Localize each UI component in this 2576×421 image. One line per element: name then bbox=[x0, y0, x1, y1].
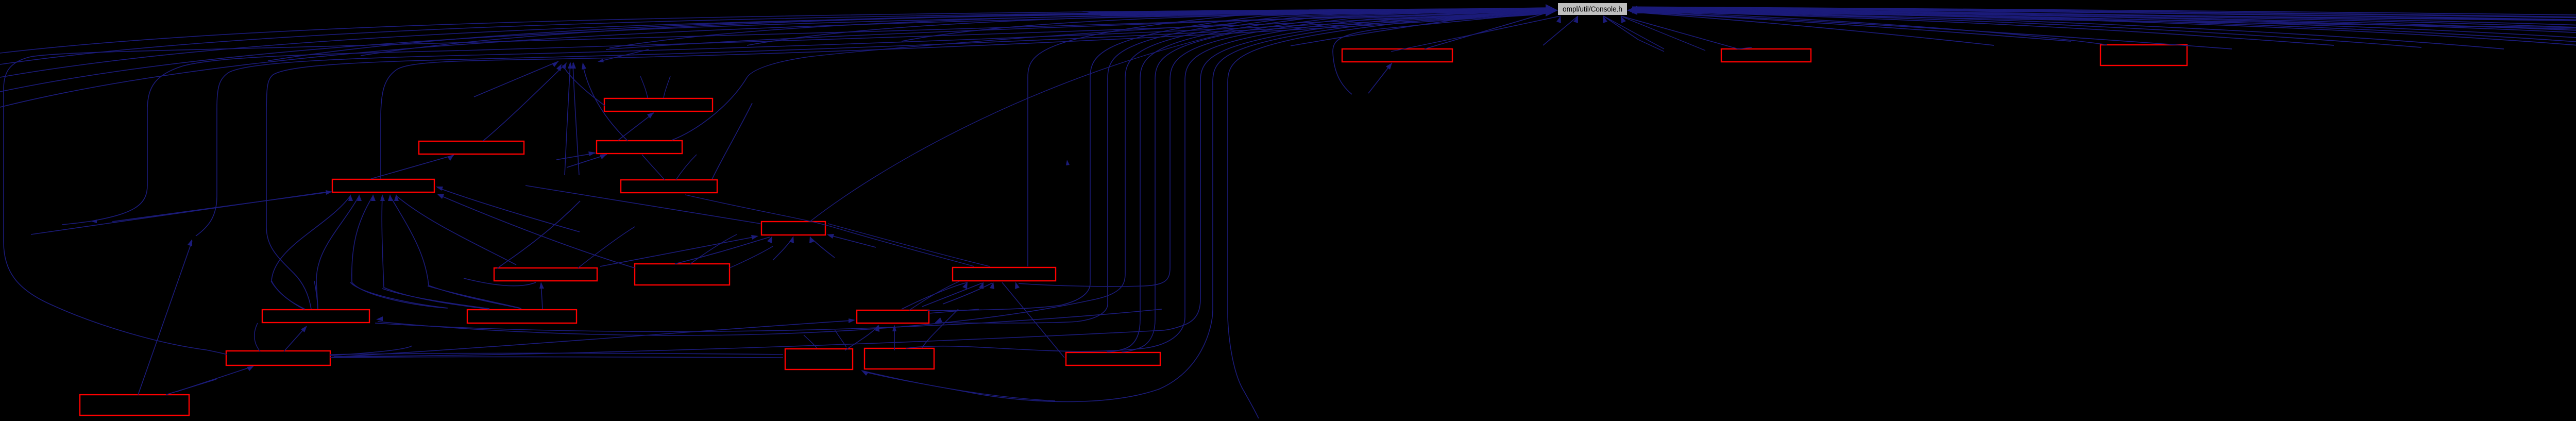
edge vertical bundle line 8 bbox=[906, 11, 1550, 351]
arrowhead E4 left bbox=[326, 190, 332, 195]
edge vertical bundle line 10 bbox=[863, 12, 1550, 401]
edges into E10/E11/E12 bbox=[284, 327, 306, 351]
edge into E3 bottom-left bbox=[567, 155, 607, 167]
arrowhead E9 bottom 2 bbox=[979, 282, 984, 289]
edge E6 top to bundle bbox=[810, 31, 1236, 222]
edge vertical bundle line 9 bbox=[1163, 11, 1550, 330]
arrowhead E6 left-bottom bbox=[751, 235, 758, 240]
edge E8 top to E6 bbox=[690, 234, 737, 264]
arrowhead E13 left bbox=[849, 318, 855, 323]
edge arc to E3 top bbox=[672, 77, 747, 140]
edge vertical bundle line 1 bbox=[1028, 8, 1550, 266]
arrowhead E4 bottom x680 bbox=[348, 194, 353, 201]
box C include bbox=[2100, 45, 2187, 65]
right stub lines bbox=[1632, 12, 1994, 46]
edge box C to node bbox=[1632, 11, 2107, 45]
arrowhead H1 d bbox=[571, 62, 576, 69]
curves from E4 fan to lower boxes bbox=[271, 281, 304, 309]
box E16 bbox=[1066, 352, 1160, 365]
box E7 bbox=[494, 268, 597, 281]
arrowhead H1 a bbox=[552, 61, 558, 67]
box E6 bbox=[761, 222, 825, 235]
edge big C curve 5 into E4 top bbox=[381, 13, 1551, 179]
arrowhead into box A bottom bbox=[1386, 63, 1392, 70]
edge E5 top V right bbox=[676, 155, 697, 180]
box E14 bbox=[785, 349, 853, 369]
box E10 bbox=[262, 310, 369, 323]
stub SE near node 2 bbox=[1623, 17, 1705, 50]
long cluster diagonals bbox=[375, 309, 1162, 331]
box A ompl/base include bbox=[1342, 49, 1452, 62]
edge big C curve 3 bbox=[196, 12, 1551, 236]
edge arc into E7 top-left bbox=[497, 201, 580, 268]
edge vertical bundle line 6 bbox=[1122, 10, 1550, 352]
edges into E9 bbox=[902, 282, 968, 309]
arrowhead E10 bottom bbox=[301, 326, 307, 332]
arrowhead into node bottom 2 bbox=[1573, 16, 1578, 23]
box E2 bbox=[604, 98, 713, 111]
arrowhead into node bottom 1 bbox=[1556, 16, 1561, 23]
arrowhead E4 right low bbox=[437, 194, 444, 199]
arrowhead H3 bbox=[188, 239, 192, 246]
edge big C curve 4 bbox=[266, 12, 1551, 309]
edge vertical bundle line 4 bbox=[378, 9, 1550, 335]
box E4 hub bbox=[332, 179, 434, 192]
edge vertical bundle line 7 bbox=[1019, 10, 1550, 287]
box E12 bbox=[226, 351, 330, 365]
edge node bottom 3 tail bbox=[1603, 16, 1638, 40]
arrowhead C2 end bbox=[92, 220, 97, 223]
edge from box B to node bbox=[1621, 16, 1738, 49]
edge into E3 left bbox=[556, 153, 596, 160]
node ompl/util/Console.h bbox=[1558, 3, 1627, 15]
edge E17 to E12 arrow bbox=[166, 379, 216, 395]
left feeder lines into bundle bbox=[0, 8, 1550, 53]
left edge bundle wedge bbox=[1082, 8, 1551, 15]
arrowhead into Console.h left bbox=[1546, 4, 1558, 16]
arrowhead E1 bottom bbox=[447, 155, 454, 161]
edge into E9 top-left b bbox=[828, 224, 990, 266]
box E11 bbox=[467, 310, 577, 323]
svg-text:ompl/util/Console.h: ompl/util/Console.h bbox=[1563, 6, 1622, 14]
edges above E14/E15 bbox=[804, 335, 817, 348]
edge E17 to H3 bbox=[138, 241, 192, 395]
edge long into E6 top-left bbox=[526, 186, 760, 224]
arrowhead into Console.h right bbox=[1627, 6, 1637, 15]
edge E8 top-right bbox=[730, 246, 773, 268]
arrowhead into E14 right-bottom bbox=[861, 371, 869, 376]
edge bundle to arc bbox=[747, 24, 1236, 77]
arrowhead E4 bottom x724 bbox=[371, 194, 376, 201]
edge vertical bundle line 3 bbox=[935, 9, 1550, 323]
edge E5 top V left bbox=[642, 155, 665, 180]
arrowhead H1 c bbox=[568, 62, 572, 69]
arrowhead E2 bottom bbox=[647, 112, 654, 119]
edge H1 to node bbox=[606, 11, 1550, 49]
arrowhead E4 bottom x697 bbox=[357, 194, 362, 201]
edge E7 top-right up bbox=[578, 227, 635, 268]
edge into E2 top b bbox=[664, 76, 670, 98]
arrowhead E3 left bbox=[588, 151, 596, 156]
arrowhead E7 bottom bbox=[539, 282, 544, 289]
edges into E6 bbox=[600, 237, 756, 266]
edge C2 end bbox=[62, 221, 92, 225]
arrowhead E4 right up bbox=[436, 187, 443, 191]
arrowhead E9 bottom 3 bbox=[990, 282, 994, 289]
edge hook E10-E12 bbox=[255, 323, 260, 351]
arrowhead H1 b bbox=[562, 62, 567, 70]
arrowhead E13 bottom 2 bbox=[892, 325, 896, 331]
arrowhead into node bottom 4 bbox=[1621, 16, 1626, 23]
edge E13 top to E9 bbox=[909, 281, 959, 310]
box E8 bbox=[635, 264, 730, 285]
box B include bbox=[1721, 49, 1811, 62]
box E15 bbox=[865, 348, 934, 369]
edge E12 right arc up bbox=[330, 346, 412, 356]
edge box D to node bbox=[1632, 11, 2576, 45]
edge E3 top to E2 bottom bbox=[618, 113, 654, 140]
arrowhead E9 bottom 1 bbox=[962, 282, 968, 289]
right fan lines to page edge bbox=[1632, 7, 2576, 29]
edge E11 to E7 bbox=[541, 283, 543, 309]
box E9 bbox=[953, 267, 1056, 281]
arrowhead E3 bottom-left bbox=[600, 154, 607, 159]
edge invisible hub A to node bbox=[1333, 12, 1550, 94]
edge vertical bundle line 5 bbox=[1107, 10, 1550, 352]
box E13 bbox=[857, 310, 929, 323]
edges into invisible hub H1 bbox=[474, 61, 558, 97]
arrowhead into E13 right-bottom bbox=[935, 317, 942, 323]
edge hub A to box A bbox=[1368, 63, 1392, 93]
edge into E9 top-left a bbox=[685, 195, 974, 266]
arrowhead E4 bottom x742 bbox=[380, 194, 385, 201]
edge into E1 bottom bbox=[371, 155, 454, 179]
edge short into H1 right bbox=[599, 49, 649, 61]
arrowhead E6 right-bottom bbox=[827, 234, 834, 239]
arrowhead E4 bottom x757 bbox=[388, 194, 393, 201]
edge E13 right out bbox=[929, 309, 979, 313]
arrowhead E6 bottom 2 bbox=[789, 236, 794, 243]
arrowhead E12 bottom-left bbox=[247, 366, 254, 371]
edge into E2 top a bbox=[640, 76, 648, 98]
edge node bottom 2 tail bbox=[1543, 16, 1578, 45]
arrowhead E6 bottom 3 bbox=[809, 236, 814, 243]
edge arc to E5 top-right bbox=[712, 103, 752, 179]
box E3 bbox=[597, 141, 682, 154]
edge vertical bundle line 11 bbox=[1228, 12, 1550, 418]
bundle E12 to E13/E14 bbox=[330, 353, 783, 355]
edge box B up-left (see node line) bbox=[1738, 47, 1752, 49]
edge big C curve 2 bbox=[92, 11, 1551, 221]
arrowhead H1 f bbox=[556, 64, 562, 71]
arrowhead E9 bottom 4 bbox=[1015, 282, 1020, 289]
arrowhead into node bottom 3 bbox=[1603, 16, 1607, 23]
edge E9 bottom to E16 left bbox=[1002, 282, 1064, 358]
arrowhead H1 e bbox=[582, 62, 586, 70]
arrowhead E13 bottom 1 bbox=[875, 325, 879, 332]
arrowhead E4 bottom x769 bbox=[394, 194, 399, 201]
box E5 bbox=[621, 180, 717, 193]
edges into E4 bbox=[31, 192, 325, 234]
edge box A to node bbox=[1425, 11, 1552, 49]
stub SE near node 1 bbox=[1603, 16, 1664, 49]
box E1 bbox=[419, 141, 524, 154]
arrowhead into E10 right bbox=[376, 316, 383, 321]
right edge bundle wedge bbox=[1632, 8, 1767, 13]
arrowhead up in vertical bundle bbox=[1066, 160, 1070, 165]
edge big C curve 1 bbox=[4, 11, 1551, 355]
edge node bottom 1 tail bbox=[1468, 16, 1561, 36]
edge vertical bundle line 2 bbox=[927, 8, 1550, 311]
arrowhead E6 bottom 1 bbox=[767, 236, 772, 243]
arrowhead H1 g bbox=[598, 59, 604, 62]
box E17 bbox=[80, 395, 189, 415]
